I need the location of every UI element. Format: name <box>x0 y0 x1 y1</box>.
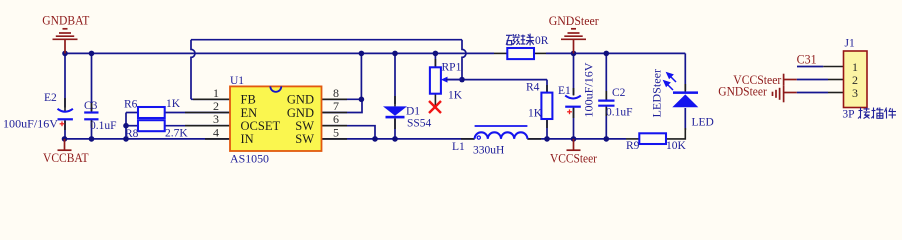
svg-text:2.7K: 2.7K <box>165 128 188 140</box>
svg-text:C2: C2 <box>612 87 626 99</box>
svg-text:E1: E1 <box>558 85 571 97</box>
svg-text:U1: U1 <box>230 75 244 87</box>
svg-text:GNDSteer: GNDSteer <box>549 13 600 28</box>
svg-text:SW: SW <box>295 132 314 146</box>
svg-text:R4: R4 <box>526 81 540 93</box>
svg-text:SW: SW <box>295 119 314 133</box>
svg-text:4: 4 <box>213 125 219 139</box>
svg-text:FB: FB <box>241 93 256 107</box>
svg-text:GNDSteer: GNDSteer <box>718 84 767 99</box>
svg-text:1K: 1K <box>528 107 543 119</box>
svg-text:0R: 0R <box>535 35 549 47</box>
svg-text:100uF/16V: 100uF/16V <box>584 62 596 118</box>
svg-text:1K: 1K <box>166 98 181 110</box>
svg-text:5: 5 <box>333 125 339 139</box>
svg-text:6: 6 <box>333 112 339 126</box>
svg-text:R9: R9 <box>626 140 640 152</box>
svg-text:J1: J1 <box>845 38 855 50</box>
svg-text:OCSET: OCSET <box>241 119 281 133</box>
svg-text:RP1: RP1 <box>442 62 462 74</box>
svg-text:3: 3 <box>852 86 858 100</box>
svg-text:C31: C31 <box>797 52 817 67</box>
svg-text:1: 1 <box>213 86 219 100</box>
svg-text:VCCBAT: VCCBAT <box>43 150 89 165</box>
svg-text:1K: 1K <box>448 90 463 102</box>
svg-text:3P: 3P <box>842 109 854 121</box>
svg-text:GNDBAT: GNDBAT <box>42 12 89 27</box>
svg-text:E2: E2 <box>44 92 57 104</box>
svg-text:GND: GND <box>287 93 314 107</box>
svg-text:R6: R6 <box>124 98 138 110</box>
svg-text:IN: IN <box>241 132 254 146</box>
svg-text:2: 2 <box>852 73 858 87</box>
svg-text:10K: 10K <box>666 140 687 152</box>
svg-text:D1: D1 <box>406 106 420 118</box>
svg-text:0.1uF: 0.1uF <box>90 120 117 132</box>
svg-text:C3: C3 <box>84 100 98 112</box>
svg-text:AS1050: AS1050 <box>230 153 269 165</box>
svg-text:100uF/16V: 100uF/16V <box>3 119 59 131</box>
svg-text:0.1uF: 0.1uF <box>606 107 633 119</box>
svg-text:LEDSteer: LEDSteer <box>652 69 664 118</box>
svg-text:7: 7 <box>333 99 339 113</box>
svg-text:LED: LED <box>692 117 714 129</box>
svg-text:3: 3 <box>213 112 219 126</box>
svg-text:8: 8 <box>333 86 339 100</box>
svg-text:R8: R8 <box>125 128 139 140</box>
svg-text:2: 2 <box>213 99 219 113</box>
svg-text:EN: EN <box>241 106 258 120</box>
svg-text:GND: GND <box>287 106 314 120</box>
svg-text:L1: L1 <box>452 141 465 153</box>
svg-text:330uH: 330uH <box>473 145 504 157</box>
svg-text:VCCSteer: VCCSteer <box>550 151 598 166</box>
svg-text:1: 1 <box>852 60 858 74</box>
svg-text:SS54: SS54 <box>407 118 432 130</box>
